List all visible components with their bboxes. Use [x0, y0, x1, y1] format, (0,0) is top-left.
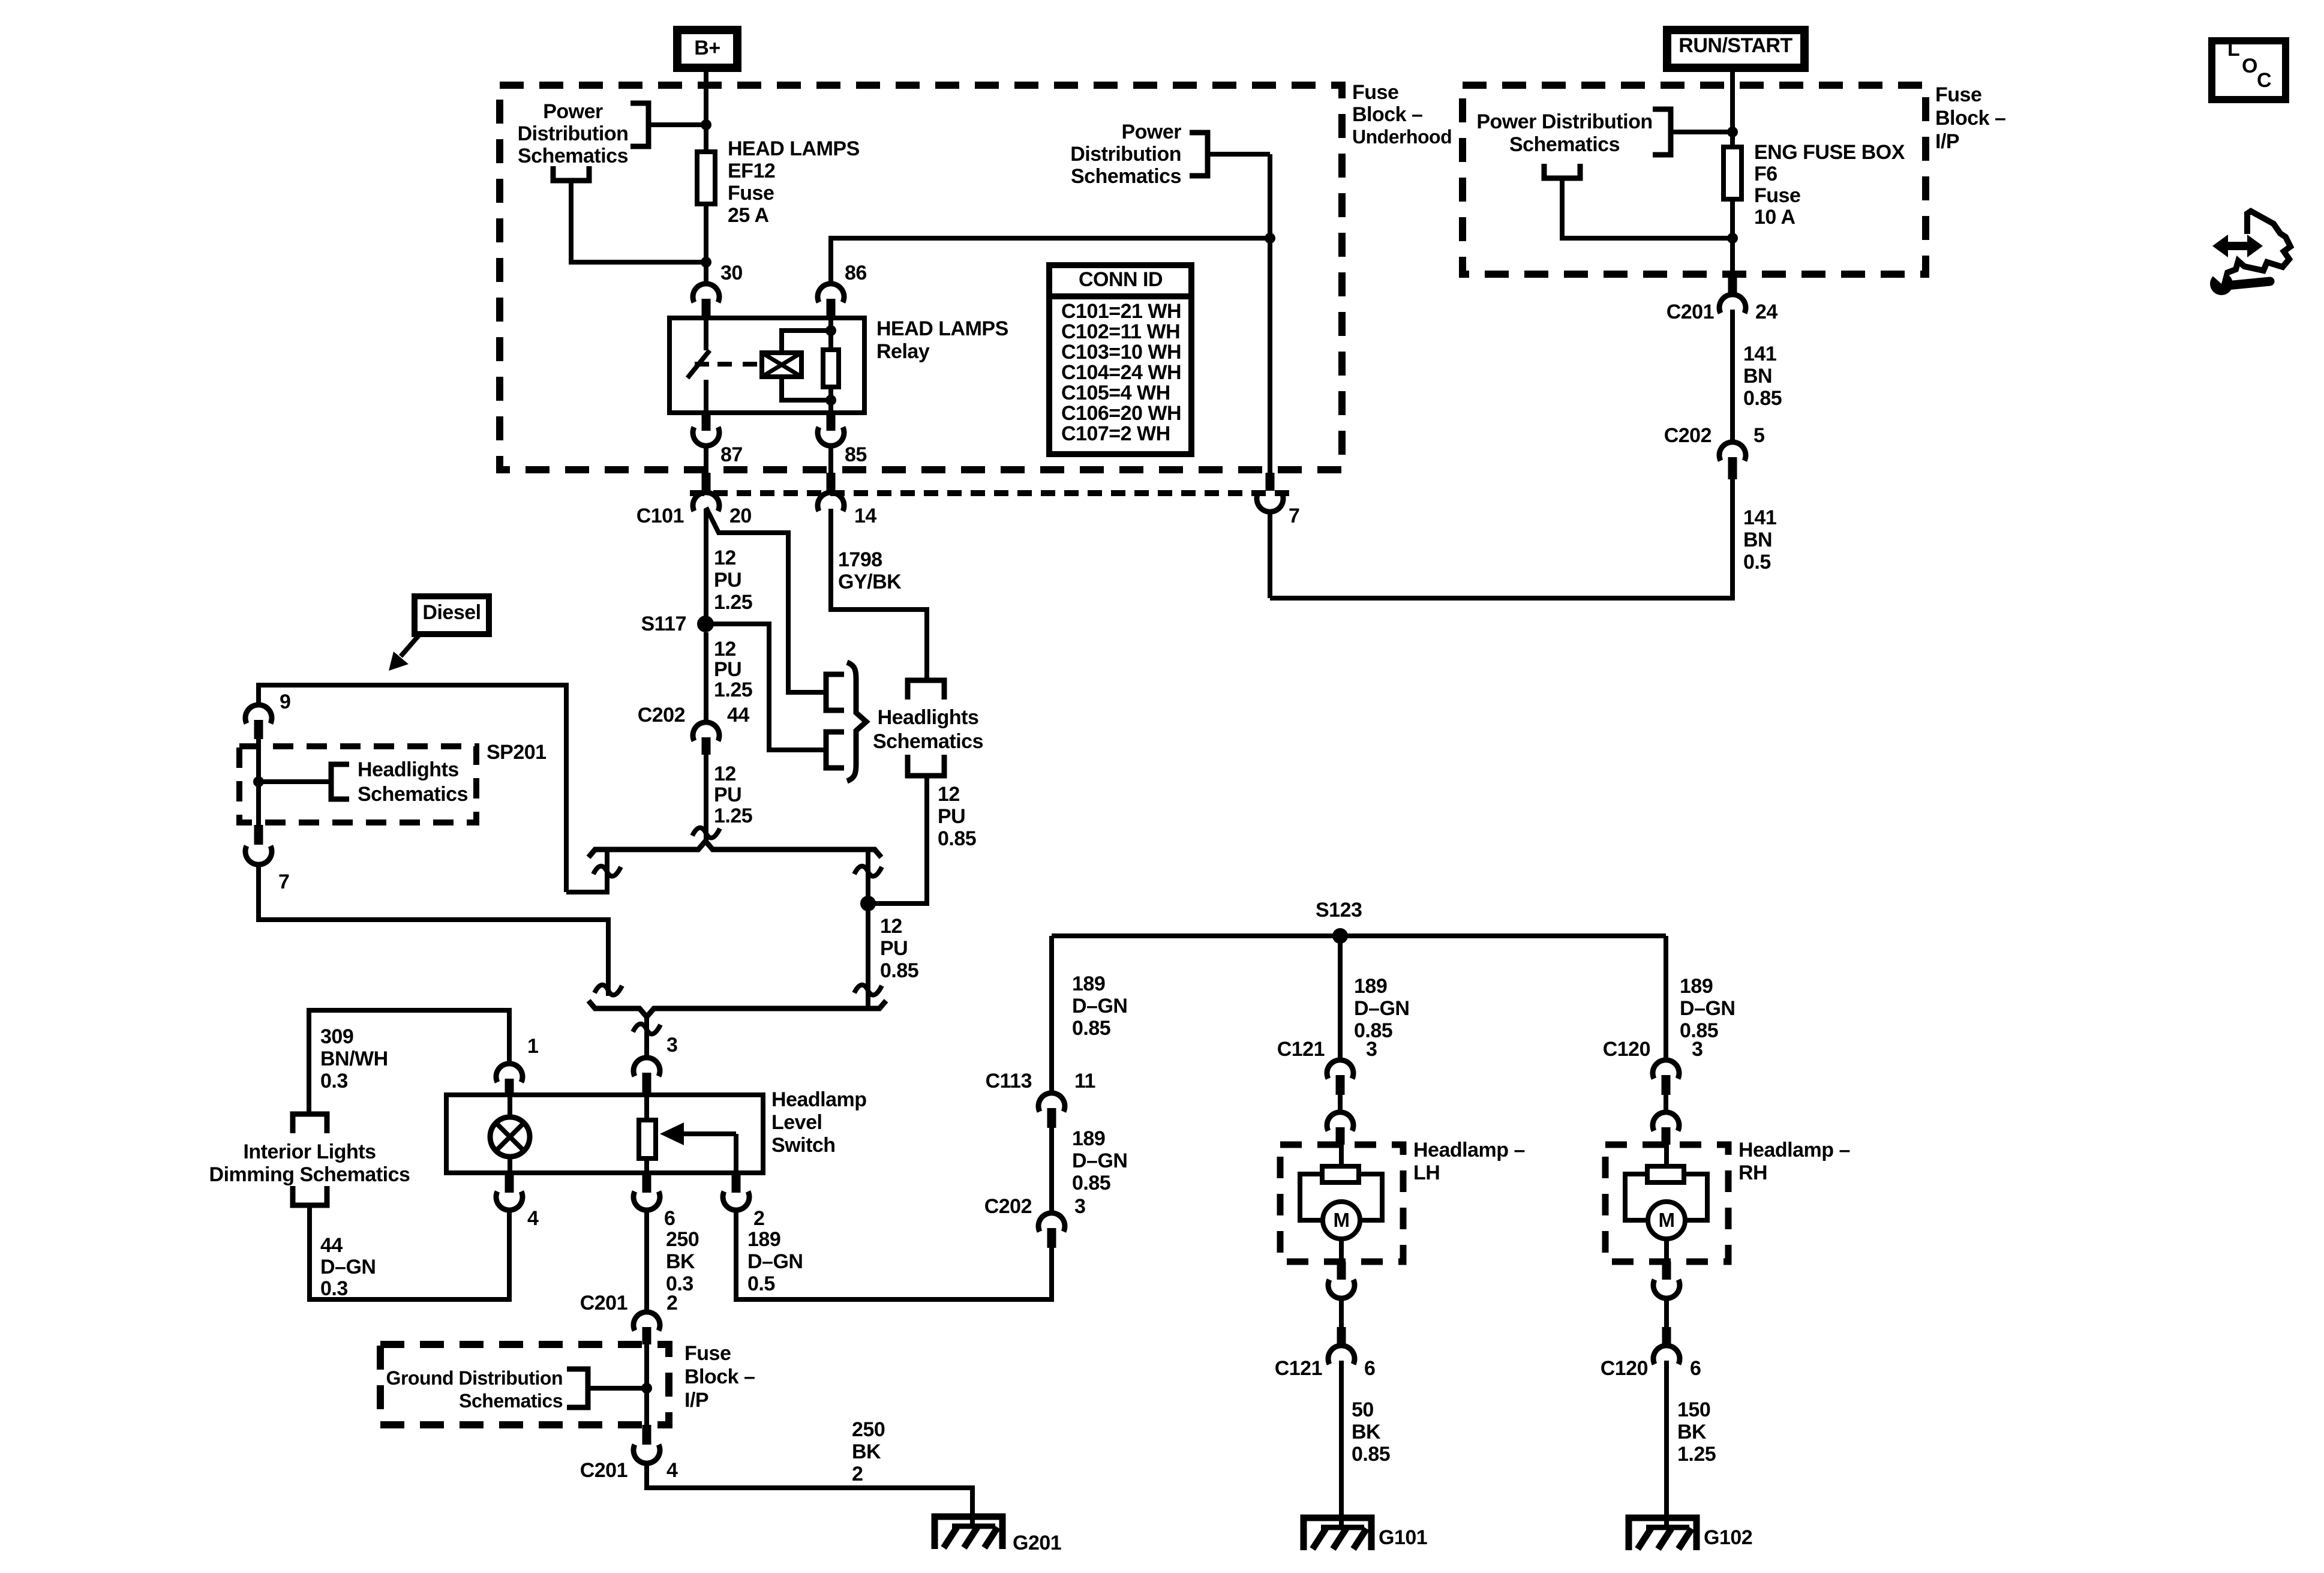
svg-text:PU: PU [714, 784, 741, 806]
relay resistor top lead [828, 318, 833, 350]
connector level switch pin 2 [732, 1173, 741, 1193]
relay resistor bottom lead [828, 387, 833, 413]
connector headlamp LH inline [1338, 1095, 1343, 1112]
svg-text:7: 7 [1289, 505, 1299, 527]
wire headlights schematics to junction [868, 776, 927, 903]
harness clamp upper [588, 841, 881, 857]
wire break squiggle right drop upper [854, 866, 882, 876]
relay resistor [823, 350, 839, 387]
wire S117 to C202-44 [704, 632, 708, 722]
svg-text:LH: LH [1413, 1161, 1440, 1184]
harness clamp lower [588, 1001, 886, 1017]
wire under-bracket to node [1562, 178, 1733, 238]
svg-text:250: 250 [666, 1228, 699, 1251]
svg-text:C201: C201 [580, 1292, 627, 1314]
svg-text:3: 3 [1692, 1038, 1703, 1061]
level switch lamp [508, 1095, 512, 1117]
connector diesel pin 9 [245, 705, 272, 724]
svg-text:BK: BK [666, 1250, 695, 1273]
svg-text:C101: C101 [636, 505, 684, 527]
bracket power distribution IP [1653, 109, 1671, 155]
svg-text:BK: BK [1352, 1421, 1381, 1443]
svg-text:150: 150 [1677, 1398, 1710, 1421]
svg-text:6: 6 [1364, 1357, 1375, 1380]
relay switch contact [704, 318, 708, 350]
level switch potentiometer [644, 1095, 649, 1120]
node on B+ wire [701, 119, 711, 130]
wire clamp to level switch pin 3 [644, 1017, 649, 1057]
wire B+ down to junction [704, 68, 708, 126]
svg-text:0.85: 0.85 [880, 959, 918, 982]
svg-text:BN: BN [1743, 529, 1772, 551]
svg-text:309: 309 [320, 1025, 353, 1048]
wire S123 to C121-3 [1338, 936, 1343, 1059]
svg-text:87: 87 [720, 443, 743, 466]
icon wrench [2210, 272, 2233, 295]
relay coil bottom lead [782, 377, 831, 400]
svg-text:C201: C201 [1667, 301, 1714, 323]
headlamp LH motor [1323, 1202, 1360, 1239]
svg-text:11: 11 [1074, 1070, 1095, 1092]
Diesel callout box [415, 596, 489, 634]
svg-text:C202: C202 [984, 1195, 1032, 1218]
svg-text:PU: PU [880, 937, 908, 960]
svg-text:GY/BK: GY/BK [838, 571, 902, 593]
svg-text:0.3: 0.3 [320, 1277, 348, 1300]
svg-text:86: 86 [845, 262, 867, 284]
svg-text:O: O [2242, 55, 2257, 77]
wire fuse F6 down to box edge [1730, 199, 1735, 274]
bracket ground distribution [567, 1369, 588, 1407]
connector C113 pin 11 [1038, 1093, 1065, 1112]
wire break squiggle right drop lower [854, 985, 882, 995]
wire vertical to pin 7 [1268, 154, 1272, 473]
headlamp LH dashed box [1280, 1145, 1403, 1262]
connector level switch pin 3 [633, 1058, 660, 1076]
under-bracket power distribution left [553, 166, 589, 181]
connector LH lower inline [1337, 1262, 1346, 1280]
connector C101 pin 20 [702, 473, 711, 492]
svg-text:0.85: 0.85 [1072, 1172, 1110, 1194]
relay coil top lead [782, 331, 831, 353]
svg-text:24: 24 [1755, 301, 1777, 323]
icon double arrow [2227, 242, 2248, 250]
node 12PU junction [860, 896, 876, 911]
bracket headlights schematics upper [826, 674, 844, 710]
svg-text:BN/WH: BN/WH [320, 1047, 388, 1070]
svg-text:Schematics: Schematics [459, 1390, 563, 1412]
level switch wiper arrow [683, 1131, 736, 1136]
svg-text:0.5: 0.5 [747, 1272, 775, 1295]
svg-text:Headlamp: Headlamp [771, 1088, 867, 1111]
svg-text:3: 3 [1366, 1038, 1377, 1061]
svg-text:12: 12 [714, 547, 736, 569]
LOC reference box [2212, 41, 2286, 100]
relay HEAD LAMPS box [669, 318, 864, 413]
svg-text:RUN/START: RUN/START [1679, 34, 1792, 57]
wire C101-20 branch to bracket [706, 508, 826, 692]
svg-text:3: 3 [1074, 1195, 1085, 1218]
connector C202 pin 44 [693, 722, 719, 741]
wire junction to fuse EF12 [704, 125, 708, 152]
relay pin 30 connector [693, 284, 719, 302]
svg-text:S123: S123 [1316, 899, 1362, 921]
svg-text:C202: C202 [1664, 424, 1712, 447]
wire RH to G102 [1664, 1361, 1669, 1529]
svg-text:HEAD LAMPS: HEAD LAMPS [876, 317, 1008, 340]
wire break squiggle above clamp [692, 828, 720, 838]
svg-text:C121: C121 [1277, 1038, 1325, 1061]
svg-text:C104=24 WH: C104=24 WH [1061, 361, 1181, 384]
connector C202 pin 3 [1038, 1213, 1065, 1232]
wire C201-24 to C202-5 [1730, 310, 1735, 442]
svg-text:C121: C121 [1275, 1357, 1322, 1380]
wire bus to C113 [1049, 936, 1054, 1092]
svg-text:C103=10 WH: C103=10 WH [1061, 341, 1181, 364]
relay pin 87 connector [702, 413, 711, 431]
svg-text:Fuse: Fuse [1352, 81, 1398, 104]
svg-text:9: 9 [280, 691, 290, 713]
svg-text:12: 12 [880, 915, 902, 938]
svg-text:L: L [2227, 38, 2239, 61]
svg-text:1.25: 1.25 [714, 591, 752, 614]
svg-text:Distribution: Distribution [518, 122, 629, 145]
ground G102 [1629, 1518, 1697, 1550]
connector C121 pin 3 [1327, 1060, 1353, 1079]
bracket 12PU from headlights schematics [908, 755, 944, 776]
splice S123 [1332, 928, 1348, 944]
wire pin 6 to C201-2 [644, 1211, 649, 1311]
node pin86 wire meets pin7 wire [1265, 233, 1275, 244]
relay pin 86 connector [818, 284, 844, 302]
svg-text:D–GN: D–GN [1072, 1149, 1127, 1172]
svg-text:M: M [1659, 1209, 1675, 1231]
svg-text:189: 189 [1072, 972, 1105, 995]
svg-text:Dimming Schematics: Dimming Schematics [209, 1163, 410, 1186]
bus wire S123 [1052, 933, 1666, 938]
svg-text:5: 5 [1753, 424, 1764, 447]
svg-text:C106=20 WH: C106=20 WH [1061, 402, 1181, 425]
svg-text:4: 4 [527, 1207, 539, 1230]
svg-text:3: 3 [666, 1034, 677, 1056]
svg-text:189: 189 [747, 1228, 780, 1251]
svg-text:Headlights: Headlights [358, 758, 459, 781]
svg-text:141: 141 [1743, 506, 1776, 529]
svg-text:Relay: Relay [876, 340, 930, 363]
wire C202-44 down to harness clamp [704, 755, 708, 841]
wire fuse to lower node [704, 204, 708, 262]
svg-text:Schematics: Schematics [1071, 165, 1181, 188]
wire bracket to ground node [588, 1386, 647, 1391]
svg-text:12: 12 [714, 763, 736, 785]
svg-text:0.5: 0.5 [1743, 551, 1771, 574]
fuse F6 [1724, 147, 1742, 199]
svg-text:Schematics: Schematics [518, 145, 628, 167]
svg-text:141: 141 [1743, 343, 1776, 365]
connector C101 pin 14 [827, 473, 836, 492]
svg-text:1.25: 1.25 [1677, 1443, 1716, 1466]
svg-text:Block –: Block – [1352, 103, 1422, 126]
svg-text:0.85: 0.85 [1072, 1017, 1110, 1040]
bracket power distribution right [1190, 133, 1208, 176]
wire C201-4 to G201 [647, 1464, 972, 1527]
wire inside SP201 [256, 739, 261, 825]
wire S117 branch to bracket [706, 624, 826, 750]
svg-text:BK: BK [1677, 1421, 1707, 1443]
svg-text:30: 30 [720, 262, 743, 284]
svg-text:C113: C113 [986, 1070, 1032, 1092]
svg-text:D–GN: D–GN [1680, 997, 1735, 1020]
svg-text:D–GN: D–GN [1354, 997, 1409, 1020]
svg-text:2: 2 [666, 1292, 677, 1314]
svg-text:25 A: 25 A [728, 204, 769, 227]
svg-text:Power: Power [1121, 121, 1181, 143]
splice S117 [697, 616, 714, 632]
svg-text:189: 189 [1354, 975, 1387, 998]
wire bracket right to vertical [1208, 152, 1270, 157]
svg-text:D–GN: D–GN [320, 1256, 376, 1278]
svg-text:0.85: 0.85 [938, 827, 976, 850]
svg-text:Fuse: Fuse [1754, 184, 1800, 207]
svg-text:1.25: 1.25 [714, 679, 752, 701]
node below fuse [701, 257, 711, 268]
bracket power distribution left [630, 103, 648, 146]
bracket interior lights top [293, 1114, 327, 1133]
node on RUN/START wire [1727, 127, 1738, 137]
svg-text:14: 14 [854, 505, 876, 527]
svg-text:C120: C120 [1603, 1038, 1650, 1061]
Diesel callout arrow [401, 634, 420, 656]
connector level switch pin 1 [496, 1064, 523, 1082]
headlamp RH loop right [1684, 1174, 1707, 1220]
wire bracket to RUN/START wire [1671, 130, 1733, 134]
svg-text:BK: BK [852, 1440, 881, 1463]
svg-text:S117: S117 [641, 613, 686, 635]
svg-text:Block –: Block – [1935, 107, 2005, 130]
connector RH lower inline [1662, 1262, 1671, 1280]
headlamp RH loop left [1625, 1174, 1648, 1220]
svg-text:189: 189 [1072, 1127, 1105, 1150]
wire C113 to C202-3 [1049, 1128, 1054, 1212]
svg-text:6: 6 [1690, 1357, 1701, 1380]
connector C101 pin 7 [1266, 473, 1275, 491]
svg-text:1.25: 1.25 [714, 804, 752, 827]
svg-text:44: 44 [727, 704, 749, 727]
svg-text:C: C [2257, 69, 2271, 92]
wire pin 2 to C202-3 [736, 1211, 1052, 1299]
wire pin 85 to C101 [828, 446, 833, 473]
svg-text:D–GN: D–GN [1072, 995, 1127, 1017]
svg-text:Headlights: Headlights [878, 706, 979, 729]
under-bracket power distribution IP [1544, 164, 1580, 178]
svg-text:C102=11 WH: C102=11 WH [1061, 320, 1180, 343]
svg-text:C107=2 WH: C107=2 WH [1061, 422, 1170, 445]
connector C201 pin 24 [1728, 274, 1737, 294]
wire RUN/START down [1730, 68, 1735, 147]
svg-text:PU: PU [714, 658, 741, 681]
connector C202 pin 5 [1719, 442, 1746, 461]
wire S123 bus to C120-3 [1664, 936, 1668, 1059]
svg-text:RH: RH [1739, 1161, 1767, 1184]
fuse block IP dashed box bottom [380, 1344, 669, 1425]
svg-text:189: 189 [1680, 975, 1713, 998]
wire splice to bracket [259, 779, 331, 784]
connector C120 pin 3 [1653, 1060, 1679, 1079]
wire diesel loop bottom [259, 865, 608, 996]
svg-text:Diesel: Diesel [422, 601, 481, 624]
svg-text:EF12: EF12 [728, 160, 775, 182]
curly brace headlights schematics [847, 662, 866, 781]
power symbol B+ box [677, 30, 737, 68]
node below F6 fuse [1727, 233, 1738, 244]
node SP201 splice [253, 776, 264, 787]
svg-text:C101=21 WH: C101=21 WH [1061, 300, 1181, 323]
wire RH motor down [1664, 1239, 1669, 1262]
svg-text:50: 50 [1352, 1398, 1374, 1421]
wire clamp left drop to diesel loop [566, 849, 607, 892]
headlamp LH loop left [1300, 1174, 1323, 1220]
svg-text:Schematics: Schematics [358, 783, 468, 806]
wire pin 87 to C101 [704, 446, 708, 473]
relay coil [762, 353, 801, 377]
wire through IP box [644, 1344, 649, 1425]
CONN ID table [1049, 265, 1191, 454]
wire LH to G101 [1339, 1361, 1344, 1529]
bracket interior lights bottom [293, 1186, 327, 1205]
svg-text:Switch: Switch [771, 1134, 836, 1157]
svg-text:Level: Level [771, 1111, 822, 1134]
wire C202-5 down left to pin 7 wire [1270, 479, 1733, 598]
svg-text:4: 4 [666, 1459, 678, 1482]
svg-text:Schematics: Schematics [873, 730, 983, 753]
headlamp LH loop right [1359, 1174, 1382, 1220]
svg-text:Block –: Block – [684, 1365, 755, 1388]
svg-text:PU: PU [938, 805, 965, 828]
svg-text:D–GN: D–GN [747, 1250, 803, 1273]
wire C101-14 to bracket 1798 [831, 509, 927, 680]
svg-text:44: 44 [320, 1234, 343, 1257]
svg-text:Ground Distribution: Ground Distribution [386, 1367, 563, 1389]
wire node to relay pin 30 [704, 262, 708, 284]
svg-text:12: 12 [938, 783, 960, 806]
svg-text:250: 250 [852, 1418, 885, 1441]
svg-text:2: 2 [852, 1463, 863, 1485]
wire break squiggle left drop [593, 866, 621, 876]
bracket headlights schematics lower [826, 732, 844, 768]
wire C202-3 down [1049, 1248, 1054, 1299]
svg-text:PU: PU [714, 569, 741, 592]
fuse block IP dashed box top [1463, 85, 1926, 274]
svg-text:BN: BN [1743, 365, 1772, 388]
wire break squiggle pin 3 [633, 1024, 660, 1034]
svg-text:Underhood: Underhood [1352, 126, 1452, 148]
svg-text:0.3: 0.3 [320, 1070, 348, 1092]
connector level switch pin 4 [505, 1173, 514, 1193]
svg-text:M: M [1334, 1209, 1350, 1231]
svg-text:B+: B+ [694, 37, 720, 59]
svg-text:85: 85 [845, 443, 867, 466]
svg-text:Fuse: Fuse [728, 182, 774, 205]
svg-text:ENG FUSE BOX: ENG FUSE BOX [1754, 141, 1905, 164]
svg-text:C105=4 WH: C105=4 WH [1061, 382, 1170, 404]
ground G101 [1304, 1518, 1371, 1550]
SP201 dashed box [239, 746, 476, 822]
connector diesel pin 7 [254, 825, 263, 845]
wire pin 86 up and right [831, 238, 1270, 284]
wire interior lights loop top [309, 1010, 509, 1112]
svg-text:C202: C202 [638, 704, 685, 727]
node ground distribution [641, 1383, 652, 1394]
svg-text:G101: G101 [1379, 1526, 1427, 1549]
icon animal head outline [2220, 211, 2290, 275]
svg-text:20: 20 [729, 505, 752, 527]
fuse EF12 [697, 152, 715, 204]
power symbol RUN/START box [1667, 30, 1804, 68]
relay dashed actuation link [717, 362, 757, 367]
svg-text:I/P: I/P [1935, 130, 1959, 153]
wire clamp right drop [866, 849, 870, 1008]
svg-text:1: 1 [527, 1035, 538, 1058]
headlamp level switch box [446, 1095, 763, 1173]
svg-text:SP201: SP201 [487, 741, 547, 764]
headlamp RH motor [1648, 1202, 1685, 1239]
wire LH motor down [1339, 1239, 1344, 1262]
svg-text:2: 2 [753, 1207, 764, 1230]
svg-text:I/P: I/P [684, 1389, 708, 1412]
wire under-bracket to lower node [571, 181, 706, 262]
connector C201 pin 4 [642, 1425, 651, 1445]
svg-text:12: 12 [714, 638, 736, 661]
svg-text:Headlamp –: Headlamp – [1413, 1139, 1525, 1161]
C101 inline connector dashed line [690, 490, 1296, 496]
wire C101-20 to S117 [704, 509, 708, 617]
svg-text:F6: F6 [1754, 163, 1777, 185]
svg-text:Distribution: Distribution [1070, 143, 1181, 166]
svg-text:CONN ID: CONN ID [1079, 268, 1163, 291]
svg-text:Power: Power [543, 100, 603, 123]
svg-text:C120: C120 [1601, 1357, 1648, 1380]
wire interior lights loop bottom [310, 1205, 509, 1299]
fuse block underhood dashed box [500, 85, 1342, 470]
svg-text:Schematics: Schematics [1509, 133, 1620, 156]
connector level switch pin 6 [642, 1173, 651, 1193]
wire diesel loop top and right [259, 685, 566, 892]
headlamp RH dashed box [1605, 1145, 1728, 1262]
node resistor top [825, 325, 836, 336]
svg-text:HEAD LAMPS: HEAD LAMPS [728, 137, 860, 160]
connector C201 pin 2 [633, 1312, 660, 1331]
svg-text:10 A: 10 A [1754, 206, 1795, 229]
svg-text:0.85: 0.85 [1352, 1443, 1390, 1466]
svg-text:Fuse: Fuse [1935, 83, 1981, 106]
connector headlamp RH inline [1664, 1095, 1668, 1112]
svg-text:7: 7 [278, 870, 289, 893]
svg-text:C201: C201 [580, 1459, 627, 1482]
bracket 1798 to headlights schematics [908, 680, 944, 700]
svg-text:Power Distribution: Power Distribution [1476, 110, 1652, 133]
svg-text:Interior Lights: Interior Lights [243, 1140, 376, 1163]
svg-text:G102: G102 [1704, 1526, 1752, 1549]
svg-text:6: 6 [664, 1207, 675, 1230]
headlamp RH bulb rect [1664, 1145, 1669, 1166]
bracket headlights schematics SP201 [331, 764, 349, 799]
relay pin 85 connector [827, 413, 836, 431]
svg-text:Headlamp –: Headlamp – [1739, 1139, 1850, 1161]
svg-text:G201: G201 [1013, 1532, 1061, 1554]
node resistor bottom [825, 395, 836, 406]
headlamp LH bulb rect [1339, 1145, 1344, 1166]
svg-text:1798: 1798 [838, 548, 882, 571]
